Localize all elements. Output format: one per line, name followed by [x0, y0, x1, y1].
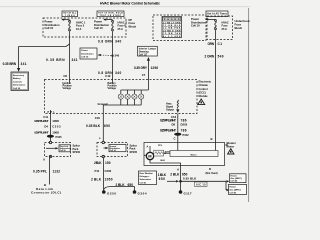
stub motor left terminal [144, 154, 146, 156]
reference box Accessory Controls [11, 72, 29, 91]
svg-text:Control: Control [199, 87, 208, 91]
svg-text:2 BLK: 2 BLK [116, 183, 126, 187]
svg-text:Gas (4PFC): Gas (4PFC) [230, 189, 242, 192]
dashed box underhood fuse block [207, 16, 233, 40]
svg-text:C8: C8 [63, 74, 67, 78]
svg-text:650: 650 [128, 183, 134, 187]
fuse HVAC 25A underhood [215, 20, 229, 31]
warning triangle ECC [198, 99, 205, 105]
svg-text:Controls: Controls [13, 80, 23, 83]
svg-text:786: 786 [181, 129, 187, 133]
svg-text:Cell 61: Cell 61 [140, 182, 148, 184]
wire C inside blower box to resistor bar [177, 143, 179, 151]
svg-text:341: 341 [21, 62, 27, 66]
pin stub ignition [69, 80, 71, 84]
grommet P105 [47, 135, 54, 138]
svg-text:Accessory: Accessory [13, 74, 25, 77]
wire branch to accessory box [19, 44, 70, 69]
svg-text:Cell 10: Cell 10 [45, 26, 54, 30]
svg-text:Climate: Climate [199, 83, 209, 87]
reference box Power Distribution Cell 10 (splice ref) [80, 48, 97, 59]
svg-text:0.35 BRN: 0.35 BRN [3, 62, 17, 66]
label Power Distribution Cell 10 (left) [45, 20, 60, 30]
resistor squiggle signal output [177, 100, 178, 108]
svg-text:Cell 50: Cell 50 [60, 150, 66, 152]
boxed note ACM [195, 182, 208, 187]
svg-text:C3 HB PNK: C3 HB PNK [163, 28, 181, 30]
svg-text:Motor: Motor [191, 153, 197, 156]
arrow to data link ref box [46, 147, 59, 149]
svg-text:1008: 1008 [52, 119, 59, 123]
label 0.8 ORN 340 (lower) [98, 71, 122, 75]
junction dot and link to bar [164, 152, 170, 154]
svg-text:Cell 117: Cell 117 [139, 54, 148, 56]
display lamp 2 [125, 94, 130, 99]
motor resistor bar [170, 151, 218, 157]
fuse legend table box [162, 17, 182, 38]
label Data Link Connector (DLC) [31, 187, 61, 195]
wire SP200 to DLC [49, 158, 51, 185]
svg-text:C1 HB LT GRN: C1 HB LT GRN [163, 22, 181, 24]
svg-text:0.35 BLK: 0.35 BLK [86, 124, 101, 128]
wire ECC ground down to splice pack SP205 [102, 114, 104, 142]
svg-text:G304: G304 [138, 192, 147, 196]
wire branch right to heater refs [181, 180, 227, 182]
svg-text:Block: Block [129, 25, 137, 29]
svg-text:TEST OR START: TEST OR START [100, 14, 122, 17]
wire dimming C7 down into ECC [147, 59, 149, 91]
pin stub battery [112, 80, 114, 84]
label 2 ORN 540 [205, 54, 224, 58]
lamp drops top [121, 90, 141, 94]
svg-text:Cell 63: Cell 63 [230, 193, 238, 195]
svg-text:C16: C16 [95, 116, 101, 120]
reference box Heater Cell 63 [229, 184, 247, 194]
svg-text:0.8 ORN: 0.8 ORN [98, 40, 113, 44]
wire ECC output C16 down to blower motor [177, 114, 179, 151]
wire branch to G304 [104, 187, 135, 191]
svg-text:Defogger -: Defogger - [140, 175, 151, 178]
svg-text:D: D [209, 167, 211, 171]
svg-text:Power: Power [81, 50, 88, 52]
svg-text:B: B [211, 137, 213, 141]
svg-text:D203: D203 [181, 123, 188, 127]
svg-text:G250: G250 [107, 192, 116, 196]
svg-text:1050: 1050 [105, 178, 113, 182]
scan edge line right [248, 8, 250, 202]
grommet P102 [174, 133, 181, 136]
svg-text:HVAC Blower Motor Control Sche: HVAC Blower Motor Control Schematic [100, 2, 160, 6]
label 0.35 PPL 1132 [33, 169, 60, 173]
svg-text:Connector (DLC): Connector (DLC) [31, 191, 61, 195]
thermal limiter box [154, 150, 164, 156]
svg-text:1132: 1132 [53, 169, 61, 173]
svg-text:0.35 GRY: 0.35 GRY [134, 66, 148, 70]
svg-text:SP200: SP200 [73, 151, 81, 154]
svg-text:C5 MB TAN: C5 MB TAN [163, 32, 181, 35]
label 0.35 PPL/WHT 1008 (lower) [34, 130, 59, 134]
label 0.35 PPL/WHT 786 (upper) [160, 118, 187, 122]
svg-text:D8: D8 [172, 123, 176, 127]
splice pack SP205 dashed box [97, 141, 128, 157]
label 0.35 BRN 341 (mid wire) [46, 58, 78, 62]
label Power Distribution Cell 10 (right) [191, 17, 206, 27]
svg-text:C: C [174, 137, 176, 141]
svg-text:Module: Module [199, 94, 209, 98]
inline connector D4 D203 [44, 124, 61, 128]
svg-text:0.35 BRN: 0.35 BRN [46, 58, 65, 62]
svg-text:Cell 10: Cell 10 [81, 56, 89, 58]
junction dot blower ground [179, 180, 182, 183]
svg-text:C203: C203 [52, 124, 61, 128]
label 1 BLK 650 [158, 173, 167, 181]
svg-text:25 A: 25 A [118, 27, 124, 31]
svg-text:Ground: Ground [98, 102, 108, 106]
reference box Data Link Schematics [59, 145, 70, 152]
wire blower ground down [180, 166, 182, 192]
reference box Rear Window Defogger [139, 171, 157, 185]
ECC module dashed box [45, 80, 198, 114]
svg-text:2 BLK: 2 BLK [170, 172, 180, 176]
label Underhood Fuse Block [235, 19, 250, 30]
svg-text:Battery: Battery [13, 77, 21, 80]
svg-text:(Not Used): (Not Used) [206, 172, 218, 175]
svg-text:150: 150 [105, 161, 111, 165]
svg-text:340: 340 [115, 40, 121, 44]
header label box HOT IN RUN (middle) [97, 11, 124, 17]
reference box Heater Cell 62 [230, 174, 247, 183]
svg-text:0.35 PPL/WHT: 0.35 PPL/WHT [34, 119, 49, 123]
svg-text:Voltage: Voltage [63, 87, 72, 90]
label Power Distribution Cell 10 (mid) [94, 20, 109, 30]
svg-text:340: 340 [115, 71, 121, 75]
wire fuse HVAC2 down to ECC C12 [112, 31, 114, 79]
svg-text:Cell 10: Cell 10 [191, 24, 200, 28]
svg-text:650: 650 [159, 177, 166, 181]
dashed box I/P fuse details [153, 15, 206, 41]
wire B inside to resistor bar [215, 143, 217, 151]
svg-text:Schematics: Schematics [13, 84, 26, 87]
svg-text:2 BLK: 2 BLK [91, 178, 102, 182]
label Splice Pack SP200 [73, 145, 81, 154]
reference box Ground Distribution Cell 14 [109, 145, 126, 153]
svg-text:A: A [147, 146, 149, 149]
svg-text:B+ 2.5 GRN: B+ 2.5 GRN [163, 36, 181, 38]
label 0.35 BRN 341 (left branch) [3, 62, 27, 66]
wire SP205 down to ground G250 [103, 158, 105, 192]
svg-text:C2 HB BLK: C2 HB BLK [163, 25, 181, 27]
svg-text:Voltage: Voltage [108, 87, 117, 90]
lamp bus top [121, 89, 149, 91]
arrowhead into accessory box [17, 68, 20, 72]
wire motor bottom to A pin out [150, 160, 181, 166]
svg-text:(ECC): (ECC) [199, 90, 206, 94]
stub motor top [149, 146, 151, 152]
ground point G304 [133, 190, 137, 194]
label Blower Motor [227, 141, 237, 148]
svg-text:C4 MB D GRN: C4 MB D GRN [163, 29, 181, 32]
label Splice Pack SP205 [130, 144, 138, 153]
label Electronic Climate Control (ECC) Module [199, 80, 212, 98]
wire underhood fuse down right side to blower B [215, 30, 217, 142]
arrow defogger into ground wire [167, 180, 179, 182]
label 2 BLK 150 [94, 161, 111, 165]
svg-text:0.35 PPL: 0.35 PPL [33, 169, 47, 173]
warning triangle blower [228, 149, 234, 154]
svg-text:1296: 1296 [151, 66, 159, 70]
arrow from fuse HVAC1 to power distribution label [61, 19, 69, 21]
svg-text:Hot At All Times: Hot At All Times [207, 13, 228, 16]
svg-text:C1: C1 [218, 42, 223, 46]
svg-text:10 A: 10 A [76, 27, 82, 31]
label I/P Fuse Block [129, 18, 137, 29]
svg-text:P105: P105 [56, 135, 63, 139]
label ORN C1 [208, 42, 223, 46]
label 2 BLK 650 (upper) [170, 172, 187, 176]
arrowhead up into dimming box [147, 57, 150, 61]
svg-text:540: 540 [218, 54, 224, 58]
svg-text:FUSES: FUSES [164, 19, 180, 21]
svg-text:1008: 1008 [52, 130, 59, 134]
svg-text:SP205: SP205 [130, 151, 138, 154]
header label box HOT AT ALL TIMES (left) [62, 11, 78, 17]
inline connector P11 C200 [95, 169, 112, 173]
svg-text:25 A: 25 A [222, 27, 228, 31]
svg-text:P102: P102 [183, 133, 190, 137]
splice pack SP200 dashed box [45, 141, 71, 157]
dashed arrow from splice S340 to reference box [98, 54, 113, 56]
label D (Not Used) [206, 167, 218, 175]
splice S340 junction dot [111, 55, 113, 57]
svg-text:Cell 10: Cell 10 [94, 26, 103, 30]
I/P fuse block dashed box [43, 18, 126, 37]
svg-text:Distribution: Distribution [81, 52, 94, 55]
svg-text:D4: D4 [44, 124, 48, 128]
svg-text:ORN: ORN [208, 42, 215, 46]
display lamp 3 [132, 94, 137, 99]
lamp drops bottom and ground bus [103, 99, 141, 113]
svg-text:Output: Output [166, 109, 174, 112]
svg-text:Heater: Heater [230, 186, 237, 189]
label 0.35 GRY 1296 [134, 66, 158, 70]
svg-text:0.35 PPL/WHT: 0.35 PPL/WHT [160, 129, 176, 133]
display lamp 1 [118, 94, 123, 99]
reference box Interior Lamps Dimming [138, 46, 158, 56]
svg-text:341: 341 [72, 58, 78, 62]
svg-text:BLK: BLK [161, 160, 166, 162]
svg-text:A/C 10: A/C 10 [196, 184, 206, 187]
wire serial data C11 down to splice pack SP200 [49, 110, 51, 141]
svg-text:C12: C12 [105, 74, 111, 78]
svg-text:Block: Block [235, 26, 243, 30]
svg-text:Gas (4SFC): Gas (4SFC) [231, 177, 243, 180]
svg-text:Schematics: Schematics [140, 178, 152, 181]
svg-text:2 ORN: 2 ORN [205, 54, 215, 58]
svg-text:Dimming: Dimming [139, 51, 149, 53]
title underline rule [0, 6, 250, 8]
svg-text:P11: P11 [95, 169, 100, 173]
svg-text:TIMES: TIMES [65, 15, 76, 17]
arrow from fuse HVAC2 to power distribution label [103, 19, 112, 21]
svg-text:G117: G117 [184, 191, 192, 195]
svg-text:340: 340 [115, 54, 120, 58]
svg-text:C200: C200 [105, 169, 112, 173]
label 0.35 BLK 1550 [86, 124, 110, 128]
svg-text:2 BLK: 2 BLK [94, 161, 102, 165]
label Hvac Signal Output [166, 103, 174, 112]
ground point G250 [102, 190, 106, 194]
label 2 BLK 1050 [91, 178, 113, 182]
svg-text:Heater: Heater [231, 174, 238, 177]
label Battery Positive Voltage [108, 82, 118, 90]
svg-text:C7: C7 [142, 73, 146, 77]
svg-text:PPL: PPL [48, 111, 56, 114]
svg-text:Cell 30: Cell 30 [13, 88, 21, 90]
fuse HVAC 2 Fuse 25A [112, 20, 128, 31]
svg-text:Interior Lamps: Interior Lamps [139, 47, 157, 50]
label 2 BLK 650 (branch) [116, 183, 134, 187]
svg-text:0.35 PPL/WHT: 0.35 PPL/WHT [34, 130, 49, 134]
wire fuse HVAC1 down to ECC C8 [69, 31, 71, 79]
svg-text:A: A [43, 158, 45, 162]
svg-text:Electronic: Electronic [199, 80, 212, 84]
svg-text:PPL: PPL [158, 145, 163, 147]
inline connector D8 D203 [172, 123, 188, 127]
motor M circle [146, 152, 153, 159]
label 0.8 ORN 340 [98, 40, 122, 44]
arrowhead into blower box [225, 144, 228, 146]
arrowhead down signal output [176, 109, 179, 113]
svg-text:650: 650 [104, 124, 110, 128]
svg-text:A: A [177, 168, 179, 172]
wire down to heater ref box 2 [226, 181, 230, 191]
label 0.35 PPL/WHT 786 (lower) [160, 129, 187, 133]
arrow to ground distribution ref box [104, 147, 109, 149]
svg-text:Cell 14: Cell 14 [110, 149, 116, 152]
arrowhead into heater ref box 1 [226, 180, 229, 182]
svg-text:0.35 BLK: 0.35 BLK [183, 177, 197, 181]
svg-text:Cell 62: Cell 62 [231, 181, 239, 183]
label 0.35 BLK 650 (branch) [183, 177, 197, 181]
header label box Hot At All Times (right) [206, 11, 228, 17]
label 0.35 PPL/WHT 1008 (upper) [34, 119, 59, 123]
display lamp 4 [139, 94, 144, 99]
label Ignition Positive Voltage [63, 82, 73, 90]
blower motor box [144, 143, 225, 166]
svg-text:Rear Window: Rear Window [140, 172, 154, 175]
ground point G117 [179, 190, 183, 194]
fuse HVAC 1 Fuse 2 10A [69, 20, 86, 31]
page background [0, 0, 250, 202]
wire arrow from power distribution to underhood fuse [205, 18, 216, 20]
